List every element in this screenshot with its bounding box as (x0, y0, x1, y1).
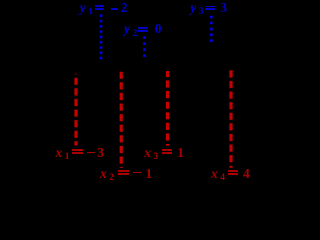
node x3 label (144, 146, 158, 160)
wire red dashed line above x2 (120, 72, 123, 168)
diagram lines (0, 0, 291, 181)
wire red dashed line above x4 (229, 70, 232, 167)
node x1 label (56, 146, 70, 160)
node x2 label (100, 167, 114, 181)
wire blue dotted line under y2 (143, 36, 146, 57)
wire blue dotted line under y1 (100, 14, 103, 60)
wire red dashed line above x1 (74, 74, 77, 146)
node y3 label (190, 1, 203, 15)
wire blue dotted line under y3 (210, 16, 213, 42)
node x4 label (211, 167, 225, 181)
node y2 label (124, 22, 137, 36)
wire red dashed line above x3 (166, 71, 169, 146)
node y1 label (80, 1, 93, 15)
